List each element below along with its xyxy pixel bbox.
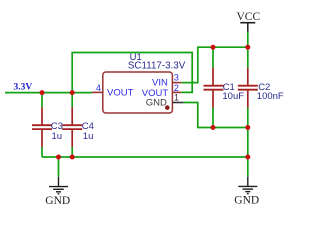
svg-text:3: 3 (174, 72, 179, 82)
svg-text:3.3V: 3.3V (14, 82, 33, 92)
svg-text:1u: 1u (83, 131, 94, 142)
svg-text:1: 1 (174, 93, 179, 103)
svg-text:GND: GND (146, 98, 167, 109)
svg-text:2: 2 (174, 83, 179, 93)
svg-text:100nF: 100nF (257, 91, 284, 102)
svg-text:4: 4 (96, 83, 101, 93)
svg-text:10uF: 10uF (222, 91, 244, 102)
svg-text:VCC: VCC (237, 11, 261, 23)
svg-text:SC1117-3.3V: SC1117-3.3V (128, 60, 186, 71)
svg-text:GND: GND (234, 195, 259, 207)
svg-text:1u: 1u (52, 131, 63, 142)
svg-text:VOUT: VOUT (107, 88, 134, 99)
svg-text:GND: GND (45, 195, 70, 207)
